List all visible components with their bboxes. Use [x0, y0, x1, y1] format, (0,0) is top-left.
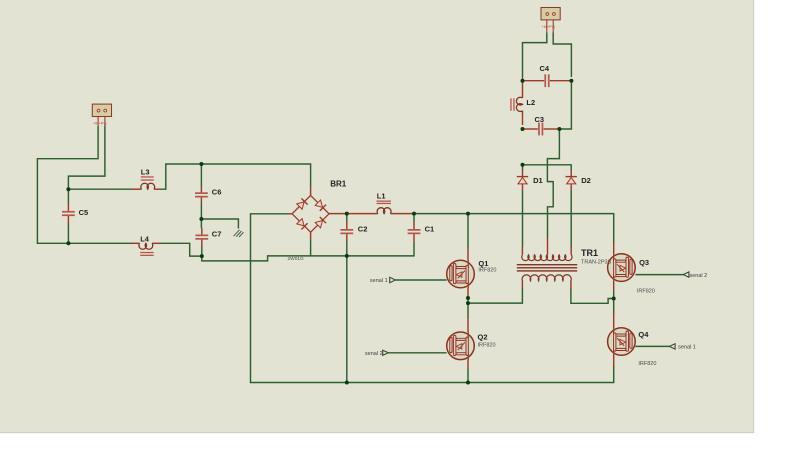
svg-text:L4: L4 [140, 234, 150, 243]
svg-text:+5(+Pv): +5(+Pv) [93, 122, 107, 126]
svg-text:L2: L2 [526, 98, 535, 107]
svg-text:TR1: TR1 [581, 248, 598, 258]
svg-text:C6: C6 [212, 187, 222, 196]
svg-text:senal 2: senal 2 [690, 273, 708, 279]
svg-text:D1: D1 [533, 176, 543, 185]
svg-text:+5(+Pv): +5(+Pv) [542, 25, 556, 29]
svg-text:IRF820: IRF820 [478, 268, 496, 274]
svg-text:senal 2: senal 2 [365, 351, 383, 357]
svg-text:IRF820: IRF820 [638, 361, 656, 367]
svg-text:D2: D2 [581, 176, 591, 185]
svg-text:senal 1: senal 1 [678, 345, 696, 351]
svg-text:Q3: Q3 [639, 258, 649, 267]
svg-text:2W01G: 2W01G [288, 256, 305, 262]
svg-text:IRF820: IRF820 [478, 343, 496, 349]
svg-text:C2: C2 [358, 225, 368, 234]
svg-text:Q4: Q4 [638, 330, 649, 339]
svg-text:senal 1: senal 1 [370, 278, 388, 284]
svg-text:C3: C3 [535, 115, 545, 124]
svg-text:L3: L3 [141, 167, 150, 176]
svg-text:C1: C1 [425, 225, 435, 234]
svg-text:IRF820: IRF820 [637, 289, 655, 295]
svg-text:Q2: Q2 [478, 332, 488, 341]
svg-text:L1: L1 [377, 192, 386, 201]
svg-text:C4: C4 [540, 64, 550, 73]
svg-text:C5: C5 [79, 208, 89, 217]
svg-text:BR1: BR1 [330, 180, 347, 189]
svg-text:C7: C7 [212, 230, 222, 239]
svg-text:TRAN-2P3S: TRAN-2P3S [581, 260, 612, 266]
